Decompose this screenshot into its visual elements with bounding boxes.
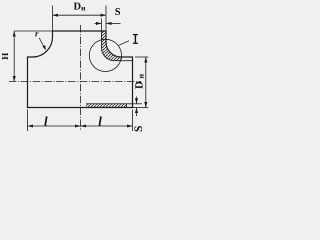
hatch: branch right wall + bend + run top wall [102,31,123,61]
dimension Dn right: line with arrows [145,57,147,108]
dimension S top: extension line (inner wall extended) [101,19,103,32]
dimension H: arrow down [13,76,16,82]
label I [133,34,138,44]
dimension Dn top: extension lines [52,6,54,32]
dimension H: arrow up [13,31,16,37]
bottom dims: arrows at ends and at axis [28,124,34,127]
leader line to label I [119,41,129,46]
horizontal centerline of run [9,81,141,83]
dimension S top: right tail with arrow pointing left [106,22,121,24]
detail callout circle I [89,39,121,71]
tee body outer outline (branch up, run horizontal) [28,31,133,108]
svg-text:l: l [44,113,48,128]
section: run inner bottom line [86,103,133,105]
svg-text:H: H [0,53,10,60]
svg-text:S: S [133,126,145,132]
svg-text:Dн: Dн [74,1,87,12]
dimension Dn right: extension lines [135,56,148,58]
vertical axis of branch [80,25,82,131]
svg-text:S: S [115,7,121,18]
dimension S bottom right: lower tail arrow pointing up [136,108,138,117]
svg-text:r: r [35,29,39,39]
dimension S bottom right: extension line inner [133,103,143,105]
bottom dims: line [28,125,133,127]
hatch: run bottom wall [86,104,127,108]
bottom dims: extension lines [27,110,29,132]
svg-text:l: l [98,113,102,128]
counterbore line bottom wall [126,104,128,108]
dimension S top: left tail with arrow pointing right [95,22,102,24]
dimension H: line [13,31,15,82]
branch top face line (also H extension to left) [14,30,52,32]
section: branch inner right wall + inner fillet + run inner top line [102,31,133,61]
dimension Dn top: line with arrows [53,14,107,16]
dimension S bottom right: upper tail arrow pointing down [136,97,138,104]
